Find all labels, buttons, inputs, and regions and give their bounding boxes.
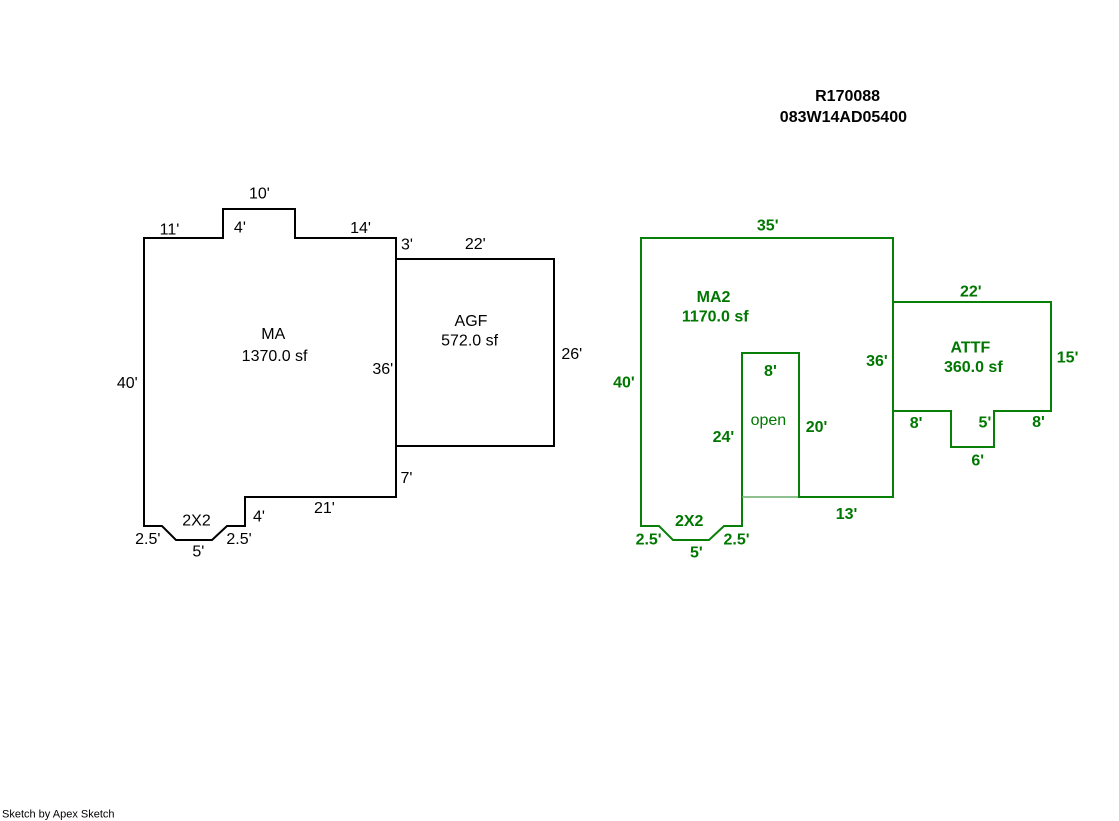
- svg-text:MA2: MA2: [697, 289, 731, 306]
- svg-text:2.5': 2.5': [226, 531, 251, 548]
- svg-text:10': 10': [249, 185, 270, 202]
- svg-text:5': 5': [192, 543, 204, 560]
- svg-text:3': 3': [401, 237, 413, 254]
- svg-text:13': 13': [836, 506, 858, 523]
- svg-text:24': 24': [713, 429, 735, 446]
- svg-text:8': 8': [764, 363, 777, 380]
- svg-text:21': 21': [314, 500, 335, 517]
- svg-text:15': 15': [1057, 349, 1079, 366]
- svg-text:572.0 sf: 572.0 sf: [441, 333, 498, 350]
- svg-text:5': 5': [690, 544, 703, 561]
- svg-text:35': 35': [757, 218, 779, 235]
- svg-text:36': 36': [372, 361, 393, 378]
- svg-text:R170088: R170088: [815, 88, 880, 105]
- svg-text:4': 4': [234, 220, 246, 237]
- svg-text:083W14AD05400: 083W14AD05400: [780, 109, 907, 126]
- svg-text:MA: MA: [261, 326, 285, 343]
- svg-text:8': 8': [910, 415, 923, 432]
- svg-text:360.0 sf: 360.0 sf: [944, 359, 1003, 376]
- svg-text:2X2: 2X2: [182, 513, 211, 530]
- svg-text:22': 22': [960, 283, 982, 300]
- svg-text:8': 8': [1032, 414, 1045, 431]
- open area bottom light edge: [743, 496, 799, 498]
- svg-text:2.5': 2.5': [636, 531, 662, 548]
- svg-text:40': 40': [613, 374, 635, 391]
- svg-text:1170.0 sf: 1170.0 sf: [682, 309, 749, 326]
- svg-text:2.5': 2.5': [135, 531, 160, 548]
- area ATTF outline: [893, 302, 1051, 447]
- svg-text:6': 6': [971, 453, 984, 470]
- svg-text:20': 20': [806, 419, 828, 436]
- svg-text:7': 7': [401, 470, 413, 487]
- svg-text:22': 22': [465, 236, 486, 253]
- svg-text:26': 26': [561, 346, 582, 363]
- svg-text:14': 14': [350, 220, 371, 237]
- svg-text:Sketch by Apex Sketch: Sketch by Apex Sketch: [2, 809, 115, 821]
- area MA outline: [144, 209, 396, 540]
- svg-text:open: open: [751, 412, 787, 429]
- area MA2 outline: [641, 238, 893, 540]
- svg-text:2.5': 2.5': [723, 532, 749, 549]
- svg-text:4': 4': [253, 509, 265, 526]
- svg-text:AGF: AGF: [455, 313, 488, 330]
- svg-text:40': 40': [117, 375, 138, 392]
- svg-text:5': 5': [979, 414, 992, 431]
- svg-text:2X2: 2X2: [675, 513, 704, 530]
- svg-text:11': 11': [160, 222, 180, 239]
- svg-text:36': 36': [866, 353, 888, 370]
- area AGF outline: [396, 259, 554, 446]
- svg-text:ATTF: ATTF: [951, 340, 991, 357]
- svg-text:1370.0 sf: 1370.0 sf: [242, 348, 308, 365]
